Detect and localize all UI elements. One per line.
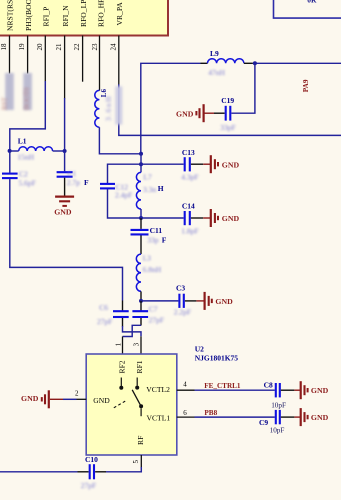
- pin 3 of U2: [133, 336, 141, 354]
- ground (sideways left) at pin 2: [21, 390, 49, 408]
- svg-text:RF: RF: [136, 436, 145, 445]
- U2 switch graphic: throw stub RF1: [136, 378, 138, 386]
- svg-text:RFO_LP: RFO_LP: [79, 0, 88, 27]
- wire C1 to ground: [64, 178, 66, 196]
- wire junction C down to C11: [140, 218, 142, 229]
- U2 switch dot RF1: [135, 386, 139, 390]
- svg-text:0R: 0R: [307, 0, 317, 5]
- svg-text:15nH: 15nH: [17, 152, 34, 161]
- inductor L7 (vertical): [136, 172, 163, 209]
- capacitor C19: [220, 96, 235, 132]
- svg-text:19: 19: [18, 43, 26, 51]
- wire L6 bottom to node A: [99, 127, 140, 154]
- wire C3 to ground: [185, 300, 197, 302]
- svg-text:5.6pF: 5.6pF: [19, 178, 36, 187]
- wire C12 branch lower: [108, 189, 142, 218]
- ground (sideways right) at C13: [211, 155, 240, 173]
- svg-text:GND: GND: [176, 110, 194, 119]
- svg-text:33pF: 33pF: [220, 123, 235, 132]
- svg-text:2: 2: [75, 390, 79, 398]
- svg-text:GND: GND: [311, 413, 329, 422]
- pin 18 NRST: [0, 0, 15, 74]
- capacitor C3: [174, 283, 191, 316]
- ground (sideways right) at C14: [211, 209, 240, 227]
- wire C8 to ground: [281, 389, 295, 391]
- svg-text:6.8nH: 6.8nH: [143, 265, 162, 274]
- pin 4 of U2 with wire: [177, 381, 275, 391]
- wire C14 to ground: [191, 217, 203, 219]
- svg-text:47nH: 47nH: [208, 68, 225, 77]
- svg-text:RFI_N: RFI_N: [61, 5, 70, 27]
- blurred net label on VR_PA wire: [115, 86, 122, 124]
- wire C6 bottom stub: [122, 318, 124, 327]
- capacitor C13: [181, 148, 198, 182]
- capacitor C11: [131, 226, 167, 244]
- svg-text:RFI_P: RFI_P: [42, 7, 51, 27]
- wire C12 branch upper: [108, 164, 142, 183]
- svg-text:GND: GND: [222, 160, 240, 169]
- capacitor C14: [181, 202, 198, 236]
- junction dot L9/C19: [253, 61, 257, 65]
- pin 20 RFI_P: [36, 7, 51, 82]
- wire L1 right node down to C1: [64, 151, 66, 171]
- svg-text:PH3(BOOT0): PH3(BOOT0): [24, 0, 33, 31]
- wire VR_PA long run to right edge: [119, 84, 341, 135]
- capacitor C10: [81, 455, 98, 490]
- pin 22 RFO_LP (unconnected): [73, 0, 88, 82]
- svg-text:RFO_HP: RFO_HP: [96, 0, 105, 27]
- svg-text:VCTL1: VCTL1: [147, 414, 171, 423]
- junction node A (L6 row joins main column): [139, 152, 143, 156]
- U2 switch alternate position (dashed): [114, 401, 126, 408]
- svg-text:RF1: RF1: [135, 360, 144, 373]
- pin 19 PH3(BOOT0): [18, 0, 33, 74]
- wire C11 to L3: [140, 235, 142, 254]
- junction node L1 left: [8, 149, 12, 153]
- wire L9 to right edge: [244, 62, 253, 64]
- svg-text:4.3pF: 4.3pF: [181, 173, 198, 182]
- svg-text:6: 6: [183, 409, 187, 417]
- RF switch U2 body: [86, 354, 177, 455]
- wire C19 to ground: [214, 112, 225, 114]
- svg-text:C6: C6: [99, 303, 108, 312]
- svg-text:21: 21: [55, 43, 63, 51]
- ground (sideways right) at C3: [205, 292, 233, 310]
- capacitor C1: [57, 169, 89, 187]
- svg-text:RST: RST: [1, 96, 9, 110]
- wire C13 to ground: [191, 163, 203, 165]
- wire L3 to junction D: [140, 291, 142, 301]
- svg-text:C10: C10: [85, 455, 98, 464]
- svg-text:C3: C3: [176, 283, 185, 292]
- svg-text:18: 18: [0, 43, 8, 51]
- wire C13 row: [141, 163, 184, 165]
- inductor L6 (vertical, on pin 23): [95, 89, 113, 128]
- wire L1 row: [10, 150, 19, 152]
- svg-text:27pF: 27pF: [81, 481, 96, 490]
- inductor L9 (horizontal): [208, 49, 244, 77]
- svg-text:BOOT0: BOOT0: [23, 87, 31, 110]
- svg-text:PB8: PB8: [204, 409, 217, 417]
- svg-text:1: 1: [114, 342, 122, 346]
- wire L1 left node down to C2: [9, 151, 11, 173]
- svg-text:L7: L7: [143, 172, 152, 181]
- svg-text:C7: C7: [149, 304, 158, 313]
- pin 23 RFO_HP: [91, 0, 106, 91]
- U2 switch dot RF2: [119, 386, 123, 390]
- svg-text:VR_PA: VR_PA: [115, 2, 124, 26]
- svg-text:3.6nH: 3.6nH: [104, 95, 113, 121]
- wire C2 down and across to C6: [10, 179, 123, 300]
- capacitor C7: [132, 304, 164, 324]
- svg-text:L3: L3: [143, 254, 152, 263]
- pin 6 of U2 with wire: [177, 409, 275, 417]
- junction node D (C3 row / C7): [139, 299, 143, 303]
- junction node L1 right: [63, 149, 67, 153]
- pin 1 of U2: [114, 337, 122, 355]
- svg-text:2.7p: 2.7p: [67, 178, 80, 187]
- ground (sideways, left-pointing) at C19: [176, 104, 204, 122]
- ground (sideways right) at C9: [301, 408, 329, 426]
- wire C14 row: [141, 217, 184, 219]
- svg-text:F: F: [162, 235, 167, 244]
- IC U1 sheet-part body (top, clipped): [0, 0, 168, 36]
- U2 switch graphic: throw stub RF2: [120, 378, 122, 387]
- svg-text:C1: C1: [68, 169, 77, 178]
- svg-text:PA9: PA9: [302, 79, 310, 92]
- wire staircase C6 to pin 3: [123, 326, 142, 336]
- wire C3 row: [141, 300, 178, 302]
- svg-text:L9: L9: [210, 49, 219, 58]
- junction node B (C12/C13 row): [139, 162, 143, 166]
- svg-text:10pF: 10pF: [271, 401, 286, 409]
- U2 switch pole arm (solid): [132, 390, 141, 407]
- svg-text:C11: C11: [150, 226, 163, 235]
- svg-text:F: F: [84, 178, 89, 187]
- wire pin20 to L1 left node: [10, 81, 46, 150]
- svg-text:C2: C2: [19, 169, 28, 178]
- svg-text:RF2: RF2: [117, 360, 126, 373]
- inductor L1 (horizontal): [17, 137, 52, 162]
- svg-text:C14: C14: [182, 202, 195, 211]
- svg-text:GND: GND: [21, 394, 39, 403]
- svg-text:33p: 33p: [147, 235, 159, 244]
- U2 switch common dot VCTL1: [139, 404, 143, 408]
- svg-text:NRST(RST): NRST(RST): [6, 0, 15, 31]
- svg-text:GND: GND: [215, 297, 233, 306]
- ground (earth) below C1: [54, 197, 74, 217]
- svg-text:22: 22: [73, 43, 81, 51]
- svg-text:2.2pF: 2.2pF: [174, 307, 191, 316]
- svg-text:10pF: 10pF: [270, 427, 285, 435]
- svg-text:4: 4: [183, 381, 187, 389]
- svg-text:27pF: 27pF: [97, 317, 112, 326]
- wire junction D down to C7: [140, 301, 142, 311]
- wire top corner run to L9: [141, 63, 201, 153]
- svg-text:24: 24: [109, 43, 117, 51]
- svg-text:27pF: 27pF: [149, 316, 164, 325]
- pin 2 of U2 with wire: [50, 390, 86, 400]
- net label (blurred) on pin 19: [23, 73, 32, 110]
- svg-text:GND: GND: [222, 214, 240, 223]
- inductor L3 (vertical): [136, 254, 161, 292]
- capacitor C6: [97, 303, 129, 326]
- svg-text:3.3n: 3.3n: [143, 185, 156, 194]
- svg-text:GND: GND: [54, 208, 72, 217]
- svg-text:C13: C13: [182, 148, 195, 157]
- svg-text:1.8pF: 1.8pF: [181, 226, 198, 235]
- svg-text:C19: C19: [221, 96, 234, 105]
- svg-text:GND: GND: [311, 386, 329, 395]
- wire L7 to junction C: [140, 209, 142, 218]
- wire C9 to ground: [281, 416, 295, 418]
- svg-text:GND: GND: [93, 396, 110, 405]
- pin 21 RFI_N: [55, 5, 70, 99]
- svg-text:2.4pF: 2.4pF: [115, 191, 132, 200]
- svg-text:5: 5: [132, 460, 140, 464]
- wire C19 branch: [231, 63, 255, 113]
- pin 5 of U2 with wire: [132, 455, 141, 468]
- svg-text:VCTL2: VCTL2: [146, 385, 170, 394]
- wire pin 5 row to left edge: [106, 467, 141, 472]
- capacitor C8: [264, 380, 286, 409]
- capacitor C2: [2, 169, 36, 187]
- svg-text:23: 23: [91, 43, 99, 51]
- svg-text:C9: C9: [259, 418, 268, 427]
- net label (blurred) on pin 18: [1, 73, 14, 110]
- capacitor C12: [100, 182, 132, 199]
- junction node C (C14 row): [139, 216, 143, 220]
- svg-text:20: 20: [36, 43, 44, 51]
- svg-text:U2: U2: [195, 344, 204, 353]
- wire staircase C7 to pin 1: [123, 325, 142, 336]
- top-right component box (clipped): [274, 0, 341, 18]
- capacitor C9: [259, 410, 284, 435]
- U2 switch common stub: [140, 408, 142, 416]
- svg-text:FE_CTRL1: FE_CTRL1: [204, 382, 241, 390]
- wire pin21 down to L1 right node: [64, 98, 66, 151]
- wire C7 bottom stub: [140, 318, 142, 326]
- svg-text:3: 3: [133, 342, 141, 346]
- ground (sideways right) at C8: [301, 381, 329, 399]
- svg-text:C8: C8: [264, 380, 273, 389]
- svg-text:NJG1801K75: NJG1801K75: [195, 354, 239, 363]
- svg-text:L1: L1: [18, 137, 27, 146]
- svg-text:H: H: [158, 184, 164, 193]
- wire main column junctionA to junctionB: [140, 154, 142, 173]
- pin 24 VR_PA: [109, 2, 124, 85]
